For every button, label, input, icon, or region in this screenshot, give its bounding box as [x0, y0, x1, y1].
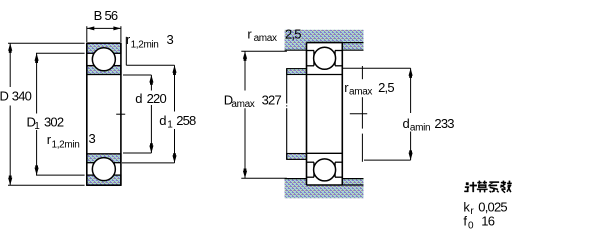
svg-text:r: r — [247, 27, 252, 42]
svg-text:amax: amax — [254, 33, 277, 44]
svg-text:1,2min: 1,2min — [131, 40, 159, 51]
svg-text:r: r — [470, 206, 474, 217]
svg-text:340: 340 — [12, 88, 32, 103]
svg-text:amin: amin — [410, 123, 430, 134]
svg-text:amax: amax — [349, 86, 372, 97]
svg-text:B: B — [94, 8, 102, 23]
svg-text:327: 327 — [262, 93, 282, 108]
svg-text:0: 0 — [468, 220, 474, 231]
svg-text:220: 220 — [147, 91, 167, 106]
svg-text:16: 16 — [481, 213, 494, 228]
svg-text:amax: amax — [231, 99, 254, 110]
svg-text:2,5: 2,5 — [378, 80, 394, 95]
svg-text:1,2min: 1,2min — [52, 140, 80, 151]
svg-text:3: 3 — [89, 131, 96, 146]
svg-text:D: D — [0, 88, 9, 103]
svg-text:d: d — [135, 91, 142, 106]
svg-text:d: d — [159, 113, 166, 128]
svg-text:233: 233 — [434, 116, 454, 131]
svg-text:1: 1 — [34, 121, 40, 132]
svg-text:f: f — [463, 213, 467, 228]
svg-text:2,5: 2,5 — [285, 27, 301, 42]
svg-text:1: 1 — [167, 120, 173, 131]
svg-text:302: 302 — [44, 114, 64, 129]
svg-text:d: d — [403, 116, 410, 131]
svg-text:3: 3 — [167, 32, 174, 47]
svg-text:258: 258 — [176, 113, 196, 128]
svg-text:56: 56 — [105, 8, 118, 23]
